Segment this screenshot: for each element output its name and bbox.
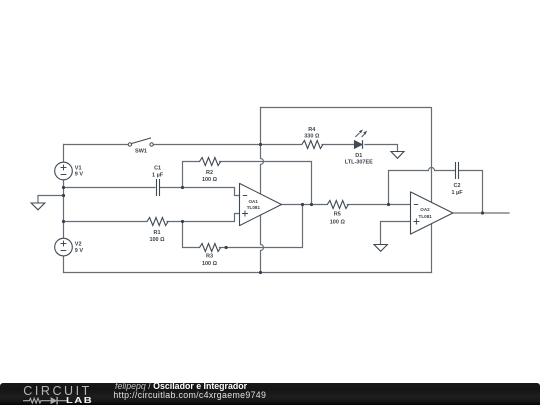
svg-text:OA2: OA2	[420, 207, 430, 212]
svg-text:100 Ω: 100 Ω	[202, 261, 218, 267]
svg-text:1 µF: 1 µF	[451, 190, 463, 196]
svg-text:LTL-307EE: LTL-307EE	[345, 160, 373, 166]
svg-text:V1: V1	[75, 166, 82, 172]
svg-text:C1: C1	[154, 165, 161, 171]
svg-text:100 Ω: 100 Ω	[149, 237, 165, 243]
svg-text:330 Ω: 330 Ω	[304, 134, 320, 140]
svg-text:9 V: 9 V	[75, 248, 84, 254]
svg-text:SW1: SW1	[135, 149, 147, 155]
svg-text:R2: R2	[206, 170, 213, 176]
svg-text:100 Ω: 100 Ω	[330, 219, 346, 225]
svg-text:OA1: OA1	[248, 199, 258, 204]
svg-text:TL081: TL081	[247, 205, 261, 210]
svg-text:R4: R4	[308, 127, 316, 133]
svg-text:R5: R5	[334, 211, 341, 217]
svg-text:R3: R3	[206, 254, 213, 260]
svg-text:100 Ω: 100 Ω	[202, 177, 218, 183]
svg-text:TL081: TL081	[419, 214, 433, 219]
svg-text:9 V: 9 V	[75, 172, 84, 178]
svg-text:R1: R1	[153, 230, 160, 236]
svg-text:D1: D1	[355, 153, 362, 159]
svg-text:V2: V2	[75, 242, 82, 248]
svg-text:1 µF: 1 µF	[152, 173, 164, 179]
svg-text:C2: C2	[453, 183, 460, 189]
